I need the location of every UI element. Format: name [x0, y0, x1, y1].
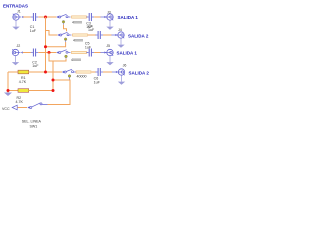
actuator row 2: [64, 38, 67, 41]
wire row1 mute stub: [64, 25, 67, 32]
svg-text:1uF: 1uF: [94, 80, 101, 84]
actuator row 1: [62, 21, 65, 24]
wire C3 to J3: [94, 16, 101, 18]
svg-text:40000: 40000: [73, 39, 83, 43]
svg-text:40000: 40000: [72, 21, 82, 25]
node bias junction: [52, 79, 55, 82]
wire J2 vertical to bias bus: [49, 53, 53, 91]
svg-text:1uF: 1uF: [85, 45, 92, 49]
wire C6 to J6: [103, 71, 112, 73]
ground below J4: [117, 38, 124, 47]
connector J4: [111, 32, 124, 38]
wire row3 mute: [53, 59, 66, 61]
wire C4 to J4: [103, 34, 112, 36]
svg-text:SEL. LINEA: SEL. LINEA: [22, 119, 42, 123]
svg-text:1uF: 1uF: [30, 29, 37, 33]
svg-text:VCC: VCC: [2, 107, 10, 111]
capacitor C5: [87, 49, 95, 57]
wire C2 to row3 switch: [38, 52, 56, 54]
svg-text:4.7K: 4.7K: [19, 80, 27, 84]
svg-text:SALIDA 1: SALIDA 1: [118, 15, 139, 20]
connector J3: [100, 14, 113, 20]
connector J5: [100, 49, 113, 55]
wire J2 to C2: [23, 52, 31, 54]
node J1 junction: [44, 16, 47, 19]
ground bottom left: [4, 93, 12, 97]
switch SW1: [27, 106, 29, 108]
wire J1 to C1: [23, 16, 31, 18]
actuator row 3: [65, 55, 68, 58]
svg-text:J3: J3: [107, 10, 111, 14]
resistor row 2 40000: [73, 34, 88, 36]
ground below J5: [106, 56, 113, 65]
capacitor C1: [31, 13, 39, 21]
wire R2 to bias bus: [29, 90, 53, 92]
wire to C4: [88, 34, 96, 36]
wire jog to row 2: [46, 31, 58, 36]
svg-text:4.7K: 4.7K: [16, 100, 24, 104]
connector J6: [112, 69, 125, 75]
wire C5 to J5: [94, 52, 101, 54]
ground below J3: [106, 20, 113, 29]
node ground junction: [7, 89, 10, 92]
svg-text:SALIDA 2: SALIDA 2: [129, 70, 150, 75]
resistor R2: [8, 90, 18, 92]
wire R1 to row4 switch: [29, 71, 62, 73]
wire bias branch to SW1: [48, 80, 71, 105]
svg-text:SALIDA 1: SALIDA 1: [117, 51, 138, 56]
actuator row 4: [68, 75, 71, 78]
capacitor C6: [95, 68, 103, 76]
svg-text:40000: 40000: [77, 74, 87, 78]
svg-text:40000: 40000: [71, 58, 81, 62]
wire R1 R2 ground rail: [7, 72, 9, 93]
resistor row 4 40000: [76, 71, 91, 73]
resistor row 1 40000: [72, 16, 87, 18]
node R2 junction: [52, 89, 55, 92]
node mute bus junction: [44, 45, 47, 48]
svg-text:J6: J6: [123, 64, 127, 68]
wire J1 vertical bus: [45, 17, 47, 72]
svg-text:J2: J2: [17, 44, 21, 48]
node J2 junction: [48, 51, 51, 54]
svg-text:SW1: SW1: [30, 124, 38, 128]
ground below J2: [12, 56, 19, 65]
wire row2 mute to bus: [46, 42, 66, 47]
svg-text:SALIDA 2: SALIDA 2: [128, 33, 149, 38]
switch row 3: [56, 50, 70, 54]
svg-text:ENTRADAS: ENTRADAS: [3, 3, 28, 8]
capacitor C3: [87, 13, 95, 21]
capacitor C2: [31, 49, 39, 57]
switch row 2: [57, 32, 71, 36]
node R1 junction: [44, 71, 47, 74]
svg-text:J5: J5: [106, 44, 110, 48]
ground below J6: [118, 75, 125, 84]
svg-text:1uF: 1uF: [32, 64, 39, 68]
capacitor C4: [95, 31, 103, 39]
switch row 4: [62, 69, 76, 73]
switch row 1: [56, 14, 70, 18]
wire C1 to row1 switch: [38, 16, 56, 18]
resistor R1: [8, 71, 18, 73]
svg-text:J1: J1: [17, 10, 21, 14]
ground below J1: [12, 20, 19, 29]
wire to C6: [92, 71, 96, 73]
connector J2: [12, 49, 22, 55]
resistor row 3 40000: [72, 51, 87, 53]
svg-text:1uF: 1uF: [88, 28, 95, 32]
svg-text:J4: J4: [118, 28, 122, 32]
connector J1: [13, 14, 23, 20]
